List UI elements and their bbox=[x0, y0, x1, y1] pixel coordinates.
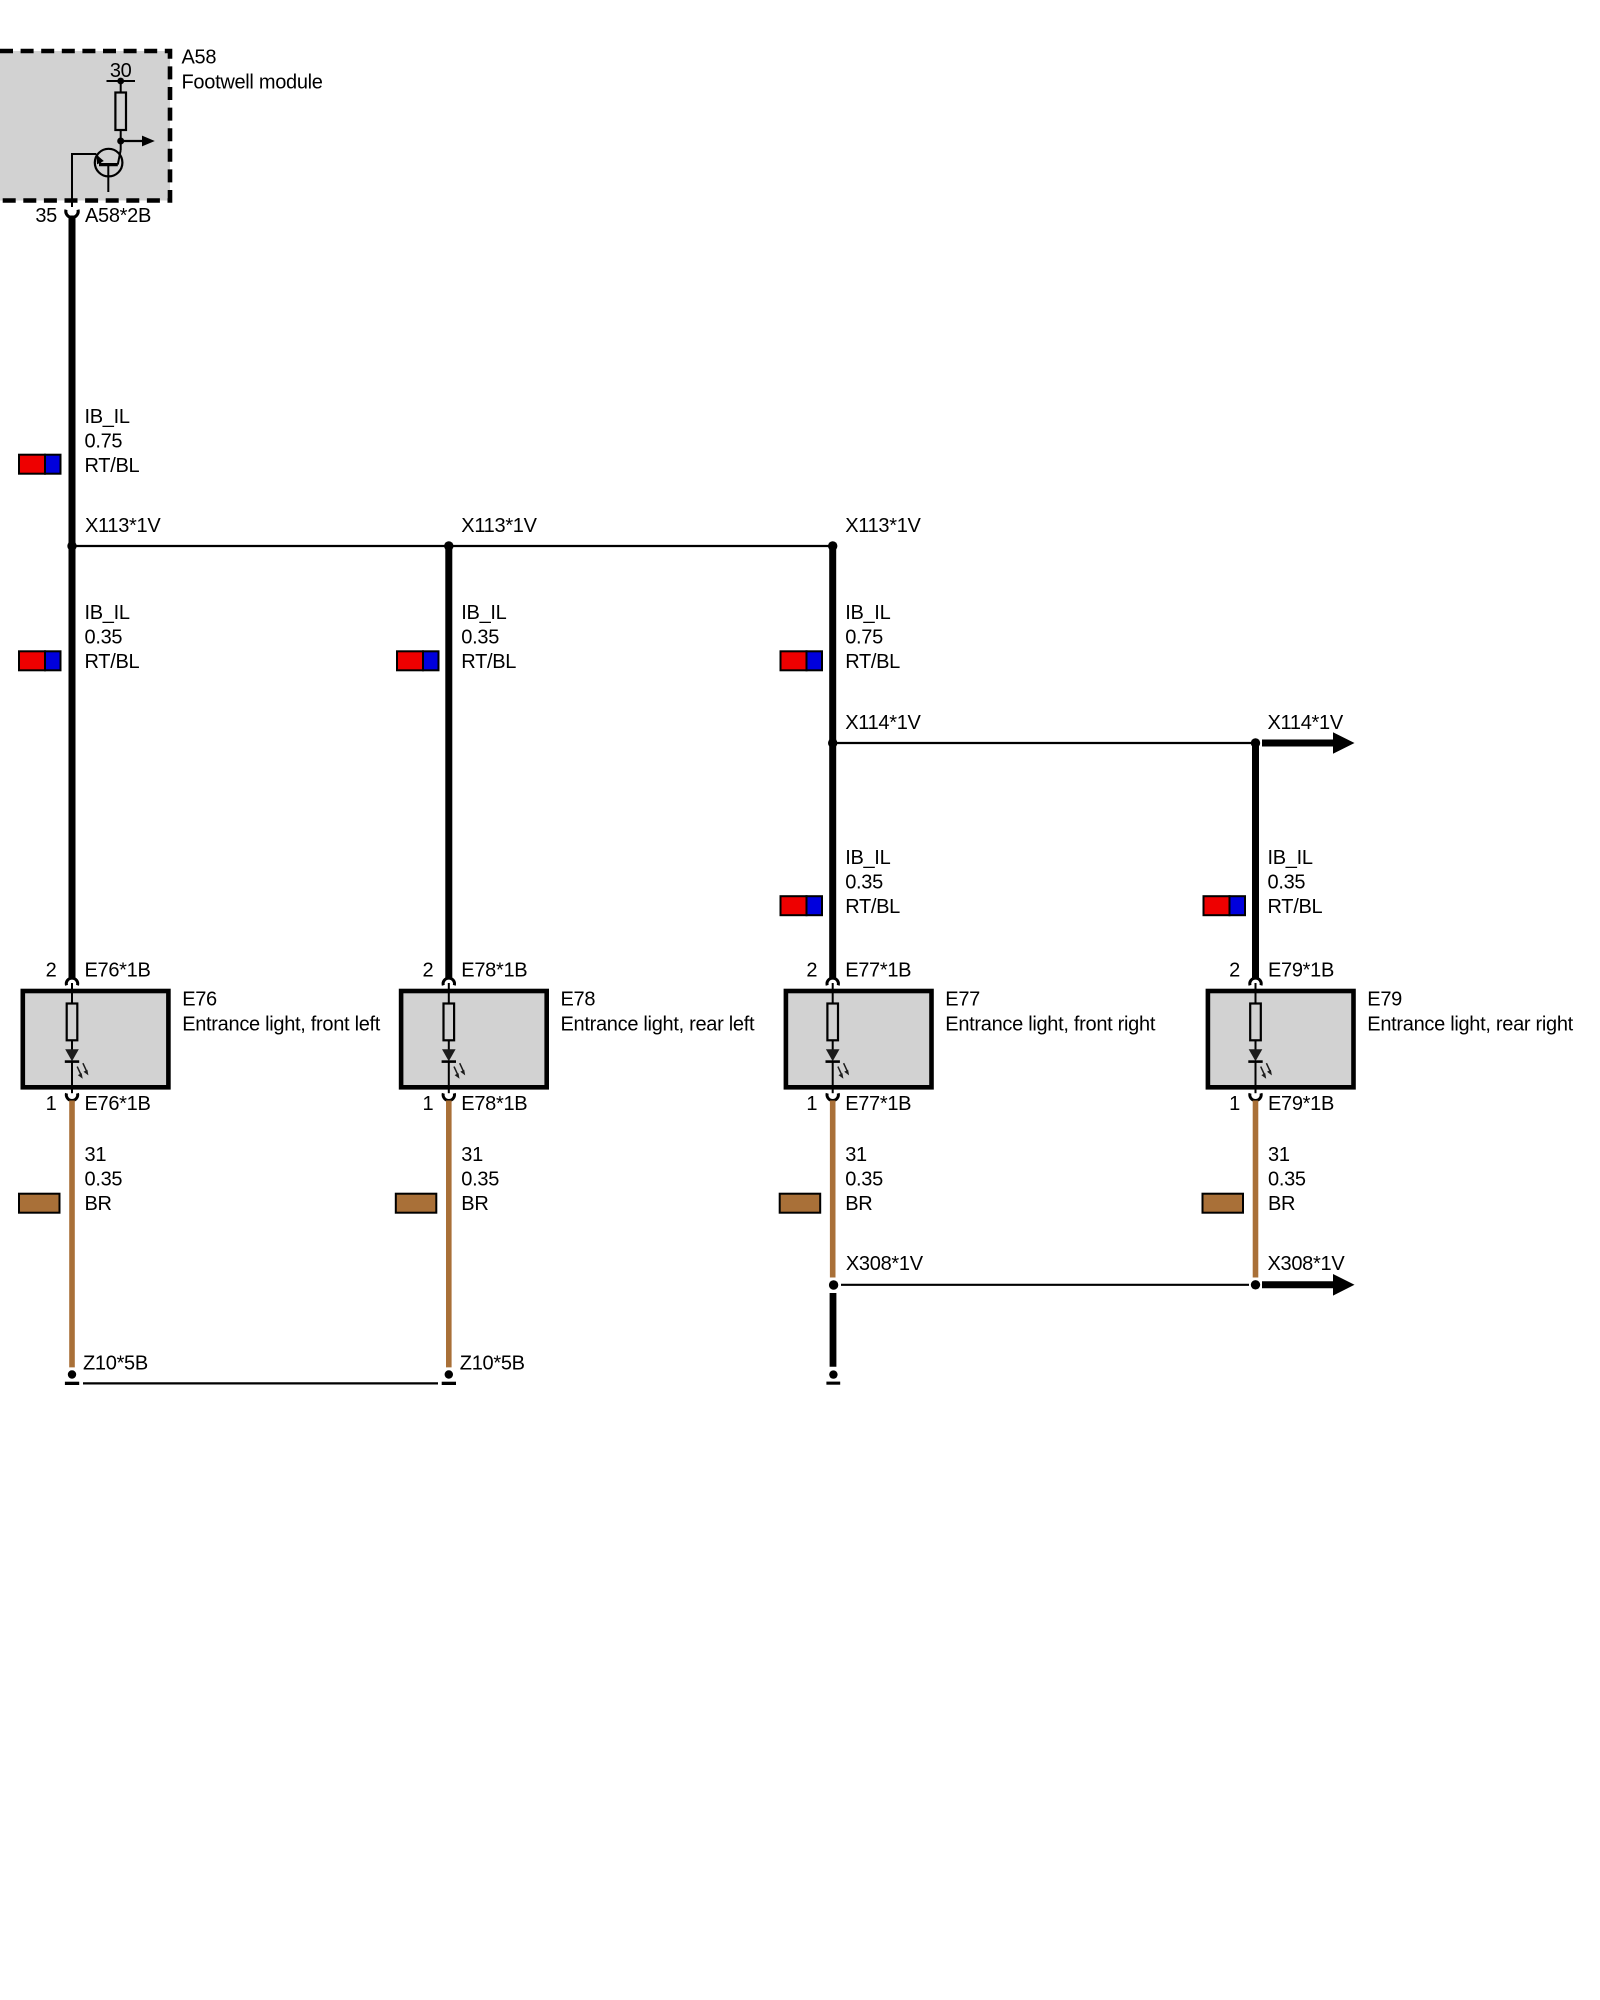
svg-text:E77*1B: E77*1B bbox=[845, 960, 911, 982]
ground bar Z10*5B col2 bbox=[442, 1382, 456, 1385]
svg-text:0.35: 0.35 bbox=[845, 1168, 883, 1190]
svg-text:BR: BR bbox=[1268, 1193, 1295, 1215]
svg-text:35: 35 bbox=[35, 205, 57, 227]
wire 31 0.35 BR (col1, brown ground wire) bbox=[69, 1101, 75, 1368]
svg-text:E79*1B: E79*1B bbox=[1268, 960, 1334, 982]
svg-text:IB_IL: IB_IL bbox=[85, 602, 130, 624]
svg-text:RT/BL: RT/BL bbox=[461, 651, 516, 673]
svg-text:0.35: 0.35 bbox=[85, 1168, 123, 1190]
svg-text:Footwell module: Footwell module bbox=[182, 72, 323, 94]
wire label 31 0.35 BR (col3) bbox=[845, 1144, 883, 1215]
wire label IB_IL 0.35 RT/BL (col2) bbox=[461, 602, 516, 673]
lamp E77 box bbox=[786, 991, 932, 1087]
svg-text:31: 31 bbox=[461, 1144, 483, 1166]
wire col3: X113 to lamp E77 pin2 (through X114) bbox=[829, 546, 836, 978]
svg-text:E78: E78 bbox=[561, 989, 596, 1011]
lamp E78 box bbox=[401, 991, 547, 1087]
wire label IB_IL 0.35 RT/BL (col4) bbox=[1268, 847, 1323, 918]
svg-text:Z10*5B: Z10*5B bbox=[460, 1352, 525, 1374]
pin 2 connector arc E77*1B bbox=[827, 978, 838, 985]
color swatch brown (col3) bbox=[780, 1194, 821, 1213]
pin 2 connector arc E76*1B bbox=[66, 978, 77, 985]
svg-text:2: 2 bbox=[46, 960, 57, 982]
wire: X114*1V distribution line bbox=[833, 742, 1256, 744]
svg-text:BR: BR bbox=[85, 1193, 112, 1215]
svg-text:E78*1B: E78*1B bbox=[461, 960, 527, 982]
svg-text:X114*1V: X114*1V bbox=[1268, 712, 1344, 734]
svg-text:IB_IL: IB_IL bbox=[1268, 847, 1313, 869]
svg-text:E76: E76 bbox=[182, 989, 217, 1011]
svg-text:E76*1B: E76*1B bbox=[85, 1093, 151, 1115]
lamp E79 internals (resistor + LED) bbox=[1248, 983, 1272, 1093]
svg-text:X308*1V: X308*1V bbox=[846, 1253, 924, 1275]
svg-text:IB_IL: IB_IL bbox=[845, 602, 890, 624]
svg-text:IB_IL: IB_IL bbox=[461, 602, 506, 624]
wire: X308*1V link line bbox=[841, 1284, 1249, 1286]
color swatch red/blue (col1 lower) bbox=[19, 651, 61, 670]
wire label IB_IL 0.75 RT/BL (col1) bbox=[85, 406, 140, 477]
lamp E76 box bbox=[23, 991, 169, 1087]
pin 35 connector arc A58*2B bbox=[66, 210, 78, 218]
terminal 30 bus bar bbox=[107, 78, 136, 85]
junction dot (collector node) bbox=[117, 138, 124, 145]
ground dot Z10*5B col1 bbox=[68, 1370, 76, 1378]
svg-text:A58: A58 bbox=[182, 47, 217, 69]
wire: Z10*5B link line bbox=[83, 1382, 438, 1384]
label E76 bbox=[182, 989, 381, 1036]
wire label IB_IL 0.75 RT/BL (col3) bbox=[845, 602, 900, 673]
svg-text:31: 31 bbox=[845, 1144, 867, 1166]
svg-text:E78*1B: E78*1B bbox=[461, 1093, 527, 1115]
wire col4: X114 to lamp E79 pin2 bbox=[1252, 743, 1259, 978]
svg-text:0.75: 0.75 bbox=[85, 431, 123, 453]
label A58 / Footwell module bbox=[182, 47, 323, 94]
lamp E76 internals (resistor + LED) bbox=[65, 983, 89, 1093]
svg-text:RT/BL: RT/BL bbox=[845, 651, 900, 673]
label E77 bbox=[945, 989, 1156, 1036]
pin 2 connector arc E79*1B bbox=[1250, 978, 1261, 985]
color swatch red/blue (col4) bbox=[1204, 896, 1246, 915]
svg-text:1: 1 bbox=[422, 1093, 433, 1115]
node dot X113 col3 bbox=[828, 541, 837, 550]
ground dot (X308 col3 stub) bbox=[829, 1370, 837, 1378]
wire: X113*1V distribution line bbox=[72, 545, 833, 547]
svg-text:0.35: 0.35 bbox=[1268, 871, 1306, 893]
svg-text:1: 1 bbox=[806, 1093, 817, 1115]
wire: terminal 30 to resistor bbox=[120, 81, 122, 93]
node dot X113 col1 bbox=[67, 541, 76, 550]
svg-text:2: 2 bbox=[422, 960, 433, 982]
svg-text:X113*1V: X113*1V bbox=[85, 515, 161, 537]
svg-text:Z10*5B: Z10*5B bbox=[83, 1352, 148, 1374]
ground bar (X308 col3 stub) bbox=[826, 1382, 840, 1385]
svg-text:Entrance light, rear left: Entrance light, rear left bbox=[561, 1014, 755, 1036]
off-page arrow X308*1V bbox=[1262, 1274, 1355, 1296]
wire label 31 0.35 BR (col1) bbox=[85, 1144, 123, 1215]
color swatch red/blue (col2) bbox=[397, 651, 439, 670]
svg-text:E79: E79 bbox=[1367, 989, 1402, 1011]
label E79 bbox=[1367, 989, 1573, 1036]
svg-text:0.35: 0.35 bbox=[85, 627, 123, 649]
wire: pin 35 lead inside A58 bbox=[72, 154, 96, 207]
svg-text:RT/BL: RT/BL bbox=[85, 455, 140, 477]
wire: X308 col3 stub to ground bbox=[830, 1293, 837, 1367]
svg-text:0.35: 0.35 bbox=[461, 627, 499, 649]
svg-text:IB_IL: IB_IL bbox=[845, 847, 890, 869]
wire label 31 0.35 BR (col2) bbox=[461, 1144, 499, 1215]
color swatch brown (col2) bbox=[396, 1194, 437, 1213]
svg-text:IB_IL: IB_IL bbox=[85, 406, 130, 428]
color swatch red/blue (col3 lower) bbox=[781, 896, 823, 915]
svg-text:1: 1 bbox=[46, 1093, 57, 1115]
wire label IB_IL 0.35 RT/BL (col1) bbox=[85, 602, 140, 673]
module A58 Footwell module (dashed box) bbox=[0, 51, 170, 201]
svg-text:0.35: 0.35 bbox=[1268, 1168, 1306, 1190]
wire label IB_IL 0.35 RT/BL (col3) bbox=[845, 847, 900, 918]
svg-text:BR: BR bbox=[461, 1193, 488, 1215]
svg-text:0.35: 0.35 bbox=[461, 1168, 499, 1190]
output arrow inside A58 bbox=[121, 136, 155, 147]
svg-text:X114*1V: X114*1V bbox=[845, 712, 921, 734]
ground bar Z10*5B col1 bbox=[65, 1382, 79, 1385]
svg-text:Entrance light, front left: Entrance light, front left bbox=[182, 1014, 381, 1036]
node dot X308 col4 bbox=[1251, 1280, 1260, 1289]
svg-text:E79*1B: E79*1B bbox=[1268, 1093, 1334, 1115]
svg-text:Entrance light, front right: Entrance light, front right bbox=[945, 1014, 1156, 1036]
pin 1 connector arc E77*1B bbox=[827, 1093, 838, 1100]
svg-text:X308*1V: X308*1V bbox=[1268, 1253, 1346, 1275]
svg-text:1: 1 bbox=[1229, 1093, 1240, 1115]
wire 31 0.35 BR (col4, brown ground wire) bbox=[1253, 1101, 1259, 1278]
ground dot Z10*5B col2 bbox=[445, 1370, 453, 1378]
node dot X113 col2 bbox=[444, 541, 453, 550]
lamp E77 internals (resistor + LED) bbox=[826, 983, 850, 1093]
off-page arrow X114*1V bbox=[1262, 732, 1355, 754]
wire: resistor to collector node bbox=[120, 130, 122, 150]
lamp E78 internals (resistor + LED) bbox=[442, 983, 466, 1093]
svg-text:RT/BL: RT/BL bbox=[85, 651, 140, 673]
wire IB_IL 0.75 RT/BL: A58 pin35 down to node X113*1V bbox=[69, 216, 76, 547]
pin 1 connector arc E78*1B bbox=[443, 1093, 454, 1100]
color swatch red/blue (col3 upper) bbox=[781, 651, 823, 670]
svg-text:RT/BL: RT/BL bbox=[1268, 896, 1323, 918]
color swatch red/blue (col1 upper) bbox=[19, 455, 61, 474]
node dot X114 col3 bbox=[828, 738, 837, 747]
wire 31 0.35 BR (col3, brown ground wire) bbox=[830, 1101, 836, 1278]
pin 1 connector arc E79*1B bbox=[1250, 1093, 1261, 1100]
node dot X114 col4 bbox=[1251, 738, 1260, 747]
wire col1: X113 to lamp E76 pin2 bbox=[69, 546, 76, 978]
svg-text:0.75: 0.75 bbox=[845, 627, 883, 649]
color swatch brown (col4) bbox=[1203, 1194, 1244, 1213]
label E78 bbox=[561, 989, 755, 1036]
wire label 31 0.35 BR (col4) bbox=[1268, 1144, 1306, 1215]
lamp E79 box bbox=[1208, 991, 1354, 1087]
transistor Q (A58 output stage) bbox=[95, 149, 123, 192]
svg-text:E77*1B: E77*1B bbox=[845, 1093, 911, 1115]
svg-text:2: 2 bbox=[806, 960, 817, 982]
node dot X308 col3 bbox=[829, 1280, 838, 1289]
svg-text:31: 31 bbox=[85, 1144, 107, 1166]
svg-text:X113*1V: X113*1V bbox=[845, 515, 921, 537]
color swatch brown (col1) bbox=[19, 1194, 60, 1213]
pin 2 connector arc E78*1B bbox=[443, 978, 454, 985]
svg-text:BR: BR bbox=[845, 1193, 872, 1215]
pin 1 connector arc E76*1B bbox=[66, 1093, 77, 1100]
svg-text:A58*2B: A58*2B bbox=[85, 205, 151, 227]
resistor in A58 bbox=[115, 93, 126, 131]
svg-text:X113*1V: X113*1V bbox=[461, 515, 537, 537]
svg-text:31: 31 bbox=[1268, 1144, 1290, 1166]
svg-text:0.35: 0.35 bbox=[845, 871, 883, 893]
svg-text:RT/BL: RT/BL bbox=[845, 896, 900, 918]
svg-text:Entrance light, rear right: Entrance light, rear right bbox=[1367, 1014, 1573, 1036]
svg-text:E76*1B: E76*1B bbox=[85, 960, 151, 982]
wire 31 0.35 BR (col2, brown ground wire) bbox=[446, 1101, 452, 1368]
svg-text:2: 2 bbox=[1229, 960, 1240, 982]
wire col2: X113 to lamp E78 pin2 bbox=[445, 546, 452, 978]
svg-text:E77: E77 bbox=[945, 989, 980, 1011]
